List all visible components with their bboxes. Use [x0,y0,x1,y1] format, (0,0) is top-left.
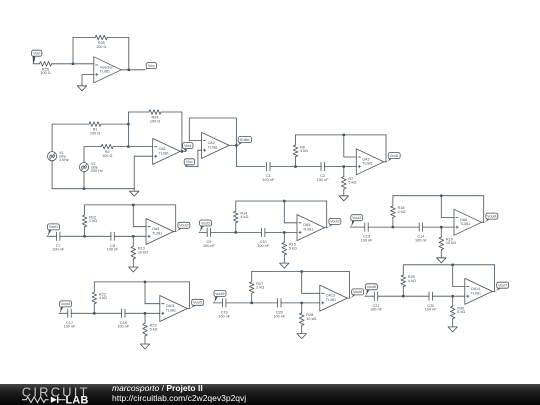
wire [423,226,454,228]
flag Vout4 (output of OA6) [486,213,498,219]
svg-text:2 kΩ: 2 kΩ [89,219,97,223]
wire (V1 bottom) [51,161,53,189]
wire (output) [121,69,145,71]
svg-text:4 kΩ: 4 kΩ [300,149,308,153]
op-amp OA1 TL081 [153,138,181,164]
wire [226,302,278,304]
wire (inverting input feedback tap) [144,281,146,283]
resistor R14 [235,201,237,211]
capacitor C1 [266,162,268,170]
capacitor C18 [121,309,123,317]
wire (feedback top right) [107,37,129,39]
svg-text:Vout: Vout [184,144,191,148]
resistor R2 [101,144,113,149]
op-amp Inversor TL081 [94,57,122,83]
svg-text:5 kΩ: 5 kΩ [457,310,465,314]
svg-text:TL081: TL081 [208,145,218,149]
svg-text:5 kΩ: 5 kΩ [348,181,356,185]
flag Vout3 (input, stage R3C) [351,215,363,221]
resistor R26 [40,62,52,67]
svg-text:100 nF: 100 nF [218,314,231,318]
ground [437,258,446,263]
capacitor C13 [364,223,366,231]
node at output [128,69,130,71]
wire (feedback down) [175,205,177,232]
resistor R6 [295,135,297,145]
wire (feedback down) [494,265,496,292]
wire [368,226,419,228]
flag Vout1 (OA3 output) [388,153,400,159]
op-amp OA4 [146,219,174,245]
op-amp OA2 TL081 buffer [202,132,230,158]
voltage source V1 (sine 1 kHz) [48,152,57,161]
node at C13-C14 junction [392,226,394,228]
wire (OA1 output) [180,150,186,152]
svg-text:100 nF: 100 nF [203,244,216,248]
svg-text:100 Ω: 100 Ω [90,132,100,136]
wire [378,295,429,297]
node R2/feedback junction [127,145,129,147]
node at C9-C10 junction [235,231,237,233]
svg-text:Vout5: Vout5 [215,292,224,296]
svg-text:Vout7: Vout7 [498,284,507,288]
node OA2 output [235,144,237,146]
svg-text:100 nF: 100 nF [117,325,130,329]
svg-text:4 kΩ: 4 kΩ [99,296,107,300]
flag Vout1 (input, stage R3A) [48,224,60,230]
wire (bottom rail) [52,188,134,190]
svg-text:100 nF: 100 nF [257,244,270,248]
wire [71,312,121,314]
svg-text:Vout1: Vout1 [49,225,58,229]
wire [365,295,374,297]
svg-text:100 nF: 100 nF [425,308,438,312]
node at non-inverting input of OA14 [452,295,454,297]
op-amp OA14 [465,278,493,304]
svg-text:Vout1: Vout1 [390,154,399,158]
node at OA3 non-inverting input [343,165,345,167]
wire [47,235,57,237]
svg-text:100 Ω: 100 Ω [150,119,160,123]
svg-text:100 nF: 100 nF [262,178,275,182]
svg-text:4 kΩ: 4 kΩ [408,279,416,283]
svg-text:Vinv: Vinv [148,64,155,68]
wire [270,166,321,168]
svg-text:100 nF: 100 nF [64,325,77,329]
svg-text:2 kΩ: 2 kΩ [398,210,406,214]
wire [114,235,146,237]
wire [199,231,207,233]
wire (V1 to R1) [52,124,89,152]
svg-text:TL081: TL081 [159,151,169,155]
resistor R28 [95,35,107,40]
wire (inverting input feedback tap) [301,270,303,272]
ground [339,196,348,201]
svg-text:Vout3: Vout3 [352,216,361,220]
wire (non-inverting input to ground) [82,75,94,86]
resistor R1 [89,122,101,127]
wire [432,295,464,297]
svg-text:Vout6: Vout6 [353,290,362,294]
node at C19-C20 junction [251,302,253,304]
capacitor C2 [320,162,322,170]
flag Vinv (inverter output) [146,63,156,69]
wire (feedback top right) [161,111,182,113]
resistor R18 [392,196,394,206]
wire (feedback top) [252,271,350,273]
svg-text:Vout: Vout [33,52,40,56]
capacitor C14 [418,223,420,231]
node C1-C2 junction [294,165,296,167]
capacitor C21 [373,292,375,300]
node V2/rail junction [83,188,85,190]
svg-text:5 kΩ: 5 kΩ [289,246,297,250]
wire (inverting input feedback tap) [440,195,442,197]
svg-text:100 nF: 100 nF [52,248,65,252]
wire (feedback top) [403,264,494,266]
wire [60,235,111,237]
footer bar [0,384,540,405]
node at non-inverting input of OA6 [440,226,442,228]
wire (V2 to R2) [84,147,101,163]
wire (output) [325,227,328,229]
svg-text:LAB: LAB [66,395,89,405]
flag Vout5 (input, stage R4B) [214,291,226,297]
wire [101,123,128,125]
svg-text:200 Hz: 200 Hz [91,169,103,173]
svg-text:TL081: TL081 [152,231,162,235]
wire (output) [174,231,177,233]
wire [59,312,68,314]
svg-text:TL081: TL081 [362,162,372,166]
svg-text:2 kΩ: 2 kΩ [256,286,264,290]
ground [140,344,149,349]
wire (feedback top) [73,37,95,39]
wire (feedback top) [85,204,176,206]
wire (feedback down) [349,272,351,299]
wire (output) [347,297,350,299]
wire [324,166,356,168]
flag Vout5 (output of OA11) [192,299,204,305]
wire (output) [482,221,485,223]
wire (feedback down) [189,282,191,309]
voltage source V2 (sine 200 Hz) [79,163,88,172]
wire (inverting input feedback tap) [452,264,454,266]
capacitor C8 [110,232,112,240]
wire [265,231,297,233]
flag Vout3 (output of OA5) [329,218,341,224]
flag Vout2 (input, stage R3B) [200,220,212,226]
wire (output) [492,290,495,292]
svg-text:TL081: TL081 [303,228,313,232]
wire (feedback down) [326,201,328,228]
wire [125,312,160,314]
flag Vout (input to inverter) [32,50,42,56]
resistor R23 [144,313,146,323]
svg-text:Vout4: Vout4 [61,302,70,306]
capacitor C22 [428,292,430,300]
ground [297,334,306,339]
svg-text:4 kΩ: 4 kΩ [240,215,248,219]
svg-text:100 nF: 100 nF [107,248,120,252]
svg-text:100 nF: 100 nF [415,239,428,243]
resistor R19 [440,227,442,237]
svg-text:TL081: TL081 [460,222,470,226]
resistor R22 [93,282,95,292]
capacitor C10 [261,228,263,236]
wire (V2 bottom) [83,172,85,189]
svg-text:100 nF: 100 nF [361,239,374,243]
capacitor C20 [277,299,279,307]
capacitor C7 [56,232,58,240]
wire [52,63,94,65]
wire (feedback left vertical) [127,112,129,147]
node at non-inverting input of OA4 [132,235,134,237]
svg-text:100 Ω: 100 Ω [102,154,112,158]
node R1/feedback junction [127,123,129,125]
flag Vout4 (input, stage R4A) [60,301,72,307]
capacitor C17 [67,309,69,317]
wire (inverting input feedback tap) [132,204,134,206]
svg-text:TL081: TL081 [326,298,336,302]
op-amp OA11 [160,296,188,322]
flag Vout2 (output of OA4) [178,222,190,228]
wire (feedback top) [236,200,327,202]
svg-text:5 kΩ: 5 kΩ [150,327,158,331]
footer caption [112,383,246,403]
wire (feedback down) [181,112,183,151]
op-amp OA3 TL081 [356,149,384,175]
node at C21-C22 junction [402,295,404,297]
wire [281,302,320,304]
flag Vout (OA1 output) [183,143,193,149]
svg-text:Vout4: Vout4 [487,214,496,218]
flag Vinv (buffer input) [184,159,194,165]
wire (feedback down) [483,196,485,223]
svg-text:100 Ω: 100 Ω [96,45,106,49]
wire (to OA2 + input) [186,150,202,166]
op-amp OA13 [320,285,348,311]
wire (feedback top) [393,195,484,197]
svg-text:1 kHz: 1 kHz [59,158,69,162]
resistor R12 [84,205,86,215]
svg-text:100 nF: 100 nF [273,314,286,318]
wire (output) [384,161,387,163]
resistor R29 [402,265,404,275]
wire [211,231,262,233]
wire (to OA1 inverting input) [113,146,153,148]
svg-text:Vinv: Vinv [186,160,193,164]
wire (feedback down) [128,38,130,70]
svg-text:Vout2: Vout2 [179,224,188,228]
wire [33,63,40,65]
wire (output) [187,308,190,310]
svg-text:10 kΩ: 10 kΩ [446,241,456,245]
wire (OA1 + input down to rail) [134,156,153,189]
ground [77,86,86,91]
flag Buffer (OA2 output) [238,137,252,143]
op-amp OA5 [297,215,325,241]
node at C17-C18 junction [93,312,95,314]
svg-text:100 nF: 100 nF [317,178,330,182]
ground [129,267,138,272]
wire (buffer output down to filter input) [236,145,265,166]
resistor R7 [343,167,345,177]
wire (OA2 output) [229,144,238,146]
svg-text:Vout3: Vout3 [330,220,339,224]
node at non-inverting input of OA13 [301,302,303,304]
ground [448,327,457,332]
node at non-inverting input of OA11 [144,312,146,314]
svg-text:Vout6: Vout6 [367,285,376,289]
resistor R27 [251,272,253,282]
node at inverting input net [72,63,74,65]
resistor R30 [452,296,454,306]
wire [213,302,222,304]
wire (inverting input feedback tap) [283,200,285,202]
capacitor C19 [222,299,224,307]
wire [350,226,365,228]
capacitor C9 [206,228,208,236]
node at non-inverting input of OA5 [283,231,285,233]
ground [280,263,289,268]
flag Vout6 (input, stage R4C) [366,284,378,290]
svg-text:10 kΩ: 10 kΩ [138,250,148,254]
node OA1 output/feedback [181,150,183,152]
svg-text:Vout5: Vout5 [193,301,202,305]
wire (feedback top) [296,134,387,136]
op-amp OA6 [454,209,482,235]
svg-text:Buffer: Buffer [240,138,250,142]
wire (feedback down) [385,135,387,162]
resistor R15 [283,232,285,242]
svg-text:TL081: TL081 [166,308,176,312]
flag Vout7 (output of OA14) [497,282,509,288]
svg-text:10 kΩ: 10 kΩ [306,317,316,321]
resistor R28 [301,303,303,313]
svg-text:TL081: TL081 [471,291,481,295]
svg-text:100 nF: 100 nF [370,308,383,312]
node at C7-C8 junction [83,235,85,237]
svg-text:Vout2: Vout2 [201,221,210,225]
wire (inverting input tap) [343,134,345,136]
CircuitLab logo [0,384,100,405]
resistor R24 [149,110,161,115]
ground [130,191,139,196]
wire (feedback left) [72,38,74,64]
wire (feedback top) [94,281,189,283]
svg-text:TL081: TL081 [100,70,110,74]
resistor R13 [132,236,134,246]
flag Vout6 (output of OA13) [352,289,364,295]
wire (OA2 feedback: - input up over top) [189,118,236,145]
wire (feedback top) [128,111,149,113]
svg-text:100 Ω: 100 Ω [40,71,50,75]
